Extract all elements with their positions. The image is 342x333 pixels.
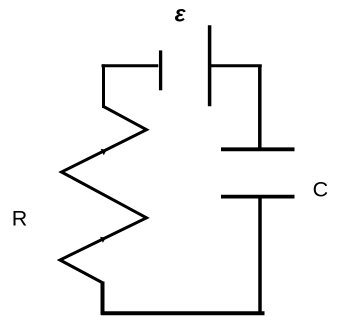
svg-text:R: R <box>12 207 28 231</box>
svg-text:C: C <box>313 178 329 202</box>
svg-text:ε: ε <box>175 1 187 27</box>
